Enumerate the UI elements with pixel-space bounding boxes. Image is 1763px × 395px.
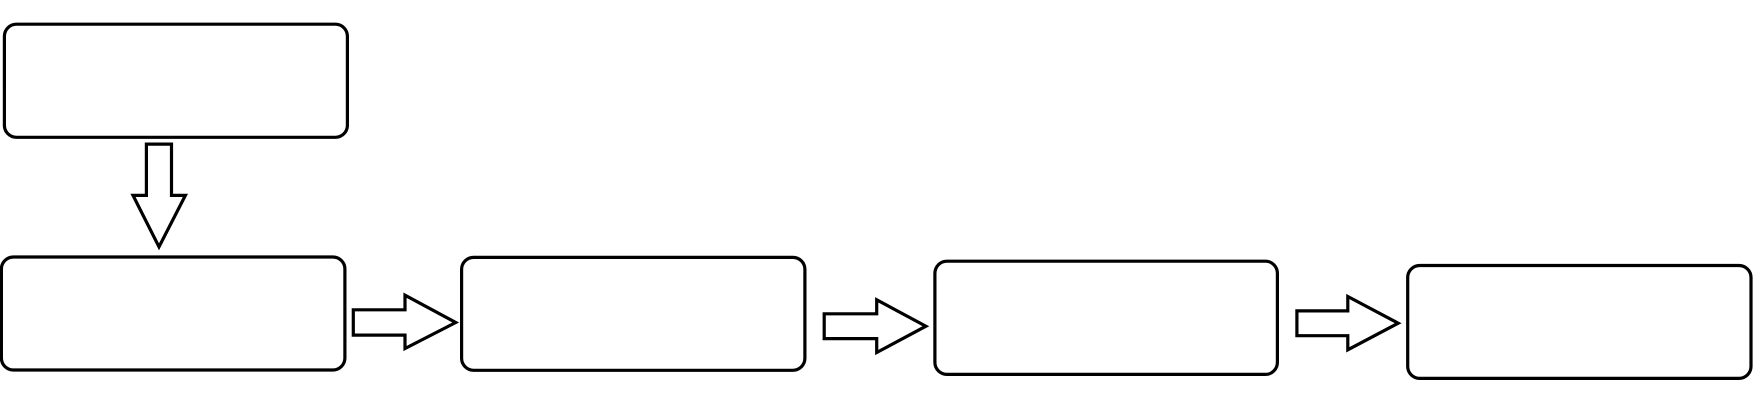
box 2 (bottom-left rounded rectangle): [1, 257, 345, 370]
right block arrow (box 4 to box 5): [1297, 297, 1398, 350]
right block arrow (box 3 to box 4): [824, 300, 926, 353]
down block arrow (box 1 to box 2): [133, 144, 185, 247]
right block arrow (box 2 to box 3): [353, 295, 455, 348]
box 3 (rounded rectangle): [462, 257, 805, 370]
box 5 (rightmost rounded rectangle): [1408, 266, 1751, 379]
box 1 (top-left rounded rectangle): [4, 24, 347, 137]
box 4 (rounded rectangle): [935, 261, 1278, 374]
